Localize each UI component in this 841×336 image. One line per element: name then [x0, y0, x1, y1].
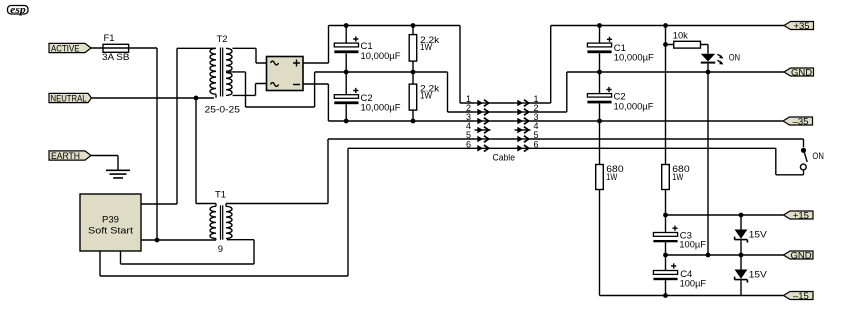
- svg-text:Cable: Cable: [493, 153, 516, 164]
- svg-text:ACTIVE: ACTIVE: [51, 44, 80, 55]
- svg-text:6: 6: [466, 139, 471, 149]
- svg-text:NEUTRAL: NEUTRAL: [51, 94, 87, 105]
- svg-text:9: 9: [218, 244, 223, 255]
- svg-text:–35: –35: [793, 116, 809, 127]
- svg-text:3A SB: 3A SB: [102, 52, 130, 63]
- svg-text:10,000µF: 10,000µF: [361, 51, 401, 62]
- svg-text:25-0-25: 25-0-25: [205, 105, 241, 116]
- svg-text:Soft Start: Soft Start: [88, 226, 133, 237]
- svg-text:F1: F1: [104, 33, 115, 44]
- svg-text:1W: 1W: [606, 172, 617, 183]
- svg-text:10,000µF: 10,000µF: [361, 103, 401, 114]
- svg-text:ON: ON: [812, 151, 824, 162]
- svg-text:GND: GND: [791, 67, 812, 78]
- svg-text:esp: esp: [10, 5, 26, 16]
- svg-text:1W: 1W: [420, 42, 432, 53]
- svg-text:1W: 1W: [672, 172, 683, 183]
- svg-text:T2: T2: [217, 34, 228, 45]
- svg-text:100µF: 100µF: [679, 239, 706, 250]
- svg-text:EARTH: EARTH: [51, 151, 80, 162]
- svg-text:15V: 15V: [749, 270, 768, 281]
- svg-text:10,000µF: 10,000µF: [614, 52, 654, 63]
- svg-text:P39: P39: [102, 215, 119, 226]
- svg-text:1W: 1W: [420, 91, 432, 102]
- svg-text:10,000µF: 10,000µF: [614, 101, 654, 112]
- svg-text:T1: T1: [215, 190, 226, 201]
- svg-text:GND: GND: [790, 250, 811, 261]
- svg-text:10k: 10k: [673, 30, 688, 41]
- svg-text:+15: +15: [793, 210, 809, 221]
- svg-text:100µF: 100µF: [680, 278, 707, 289]
- svg-text:+35: +35: [793, 21, 809, 32]
- svg-text:–15: –15: [793, 291, 809, 302]
- svg-text:ON: ON: [729, 53, 740, 64]
- svg-text:6: 6: [534, 139, 539, 149]
- svg-text:15V: 15V: [749, 230, 768, 241]
